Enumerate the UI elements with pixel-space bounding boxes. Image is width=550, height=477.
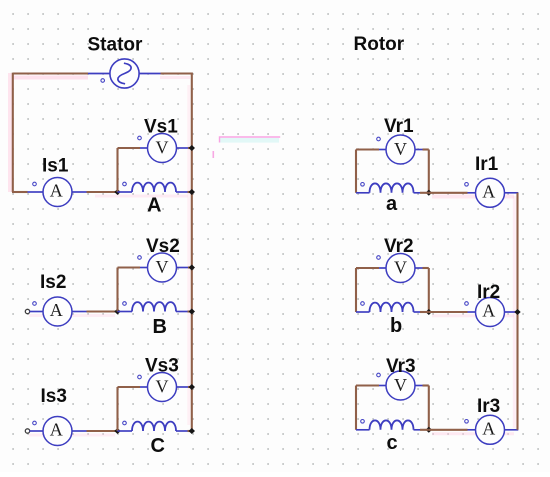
wire lead Vr1 left [379,149,386,151]
junction rotor node 2 [426,309,432,315]
junction node 1 [114,189,120,195]
wire coil 2 to rail [188,310,192,312]
wire highlight artifact [29,434,115,437]
svg-text:Is1: Is1 [42,155,69,176]
unconnected pin Is3 [25,429,29,433]
wire lead Vr3 right [415,385,423,387]
inductor c [370,420,414,429]
inductor A [132,183,176,192]
inductor a [370,183,414,192]
wire highlight artifact [432,195,514,199]
ammeter Ir2 [476,298,505,327]
wire highlight artifact [13,76,88,80]
wire Is3 to node [87,430,118,432]
wire lead Is1 right [72,191,87,193]
wire node to Ir3 [429,429,468,431]
wire rotor rail [516,193,518,430]
svg-text:V: V [156,377,169,397]
junction rotor rail [514,309,520,315]
wire Is2 to node [87,310,118,312]
svg-text:A: A [50,300,63,320]
pin marker coil c [361,420,365,424]
wire stator rail [191,73,193,431]
voltmeter Vs1 [148,134,177,163]
wire lead Vs3 left [140,386,148,388]
wire lead source left [88,73,110,75]
pin marker coil 1 [123,182,127,186]
wire lead Ir1 left [468,192,476,194]
wire lead Vs2 left [140,267,148,269]
wire coil a to node [420,192,429,194]
wire riser Vs2 [116,268,118,312]
wire coil b to node [420,311,429,313]
pin marker Ir2 [465,302,469,306]
wire to Vs2 [118,266,141,268]
svg-text:A: A [482,182,495,202]
wire left rail [12,73,14,192]
svg-text:Is3: Is3 [41,386,67,407]
svg-text:Vr2: Vr2 [384,236,414,257]
svg-text:a: a [386,193,398,215]
ammeter Ir1 [476,178,505,207]
wire lead Is2 right [72,311,87,313]
voltmeter Vr2 [386,254,415,283]
voltmeter Vr1 [386,135,415,164]
wire lead coil c right [414,429,421,431]
junction coil 1 rail [189,189,195,195]
pin marker Ir1 [465,183,469,187]
wire lead Is3 right [72,430,87,432]
wire highlight artifact [8,73,12,192]
pin marker coil b [361,302,365,306]
wire riser Vs1 [116,148,118,192]
wire Is1 to node [87,191,118,193]
wire Vr2 drop [428,268,430,312]
wire lead Vs3 right [177,386,190,388]
svg-text:Ir2: Ir2 [477,282,500,303]
wire lead Vr2 left [379,267,386,269]
ammeter Is3 [43,417,72,446]
inductor C [132,422,176,431]
wire coil c to node [420,429,429,431]
wire lead Vs2 right [177,267,190,269]
pin marker coil a [361,183,365,187]
wire lead Ir3 right [505,429,519,431]
wire lead coil 2 left [118,311,133,313]
svg-text:Vr3: Vr3 [386,356,416,377]
wire lead coil b right [414,311,421,313]
svg-text:Vs3: Vs3 [145,355,179,376]
wire top left [13,72,88,74]
svg-text:A: A [50,420,63,440]
svg-text:V: V [156,138,169,158]
svg-text:A: A [482,301,495,321]
pin marker source [101,79,105,83]
wire node to Ir1 [429,192,468,194]
svg-text:A: A [482,419,495,439]
wire lead Is3 left [30,430,44,432]
wire highlight artifact [432,432,514,435]
wire to Vs1 [118,147,141,149]
unconnected pin Is2 [25,309,29,313]
wire highlight artifact [432,314,514,317]
wire lead coil 3 right [176,430,188,432]
pin marker Is2 [33,302,37,306]
svg-text:Stator: Stator [88,34,144,55]
wire Vr2 corner [423,267,429,269]
wire lead coil 1 left [118,191,133,193]
wire lead Vs1 left [140,147,148,149]
svg-text:b: b [390,315,402,337]
svg-text:Is2: Is2 [40,272,66,293]
wire Vs3 to rail [188,386,192,388]
wire Vr1 corner [423,148,429,150]
voltmeter Vs2 [148,253,177,282]
ammeter Is2 [43,297,72,326]
junction coil 2 rail [189,309,195,315]
svg-text:Rotor: Rotor [354,34,405,55]
wire lead Ir3 left [468,429,476,431]
svg-text:Vs1: Vs1 [144,116,178,137]
pin marker Vs1 [138,136,142,140]
ammeter Ir3 [476,415,505,444]
wire lead coil c left [356,429,370,431]
svg-text:V: V [156,257,169,277]
wire highlight artifact [29,314,115,317]
wire highlight artifact [160,76,190,79]
wire to Vr3 [356,384,379,386]
svg-text:Vs2: Vs2 [146,236,180,257]
inductor b [370,303,414,312]
wire highlight artifact [187,85,190,425]
svg-text:A: A [147,195,161,217]
pin marker Vs2 [138,256,142,260]
junction Vs3 rail [189,384,195,390]
svg-text:Ir3: Ir3 [477,396,500,417]
pin marker Ir3 [465,420,469,424]
pin marker coil 3 [123,421,127,425]
wire highlight artifact [95,195,188,198]
pin marker coil 2 [123,302,127,306]
junction coil 3 rail [189,428,195,434]
pin marker Vs3 [138,375,142,379]
svg-text:c: c [387,432,398,454]
AC source V1 [110,59,139,88]
inductor B [132,302,176,311]
svg-text:V: V [394,258,407,278]
wire lead Vs1 right [177,147,190,149]
pin marker Vr3 [377,373,381,377]
stray artifact tick [212,151,214,158]
pin marker Is3 [33,421,37,425]
wire lead coil a left [356,192,370,194]
wire Vs1 to rail [188,147,192,149]
svg-text:C: C [151,435,165,457]
svg-text:Ir1: Ir1 [475,154,499,175]
wire rotor loop 1 left [355,150,357,193]
wire to Vs3 [118,386,141,388]
wire lead source right [139,73,161,75]
wire lead Ir2 right [505,311,519,313]
junction Vs2 rail [189,265,195,271]
svg-text:V: V [394,139,407,159]
voltmeter Vr3 [386,371,415,400]
wire highlight artifact [513,196,516,428]
ammeter Is1 [43,178,72,207]
wire lead Is2 left [30,311,44,313]
wire to Vr2 [356,267,379,269]
wire node to Ir2 [429,311,468,313]
wire lead Vr1 right [415,149,423,151]
junction rotor node 1 [426,190,432,196]
wire rotor loop 3 left [355,386,357,430]
wire lead Vr2 right [415,267,423,269]
junction rotor node 3 [426,427,432,433]
svg-text:Vr1: Vr1 [384,116,414,137]
svg-text:A: A [50,181,63,201]
junction node 2 [114,309,120,315]
junction Vs1 rail [189,145,195,151]
stray artifact line [220,138,279,143]
wire top right [161,72,193,74]
pin marker Vr2 [377,256,381,260]
wire lead Ir1 right [505,192,519,194]
pin marker Vr1 [377,137,381,141]
wire coil 1 to rail [188,191,192,193]
pin marker Is1 [33,182,37,186]
wire lead coil 1 right [176,191,188,193]
wire Vr3 drop [428,386,430,430]
wire lead Is1 left [28,191,44,193]
wire lead Ir2 left [468,311,476,313]
wire riser Vs3 [116,387,118,431]
wire Vr1 drop [428,150,430,193]
wire to Vr1 [356,148,379,150]
wire to Is1 [12,191,28,193]
wire coil 3 to rail [188,430,192,432]
wire lead Vr3 left [379,385,386,387]
wire lead coil 2 right [176,311,188,313]
voltmeter Vs3 [148,373,177,402]
svg-text:V: V [394,375,407,395]
junction node 3 [114,428,120,434]
wire Vr3 corner [423,384,429,386]
wire Vs2 to rail [188,266,192,268]
wire lead coil a right [414,192,421,194]
wire rotor loop 2 left [355,268,357,312]
wire lead coil b left [356,311,370,313]
wire lead coil 3 left [118,430,133,432]
svg-text:B: B [153,316,167,338]
